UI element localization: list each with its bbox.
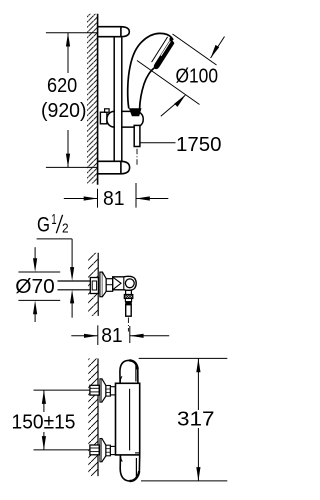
hose nut dark band [125,302,132,305]
svg-text:G: G [37,213,50,237]
svg-text:1: 1 [51,212,56,228]
neck below elbow [125,291,127,295]
cartridge line [129,389,131,451]
svg-text:Ø70: Ø70 [15,275,55,298]
top knurl ring [106,386,111,397]
svg-text:2: 2 [62,221,69,236]
wall hatching (middle view) [88,253,98,316]
svg-text:(920): (920) [41,100,87,122]
dimension Ø100 upper arrow [211,37,225,59]
wall hatching (bottom view) [88,359,98,477]
dimension Ø70 extent lines [18,271,60,273]
bottom hex nut [90,445,99,455]
dimension 620 (920) line [67,33,69,73]
svg-text:620: 620 [47,75,77,97]
escutcheon cone (middle) [102,272,106,297]
holder body on rail [107,111,143,127]
elbow V-notch [113,278,121,290]
holder lever knob [100,112,107,124]
hand shower handle outer curve [128,33,173,108]
supply pipe through wall [58,280,91,282]
bottom connection stub [110,446,115,454]
hose stub [126,305,132,317]
rail channel through holder [115,110,121,128]
bottom escutcheon base [100,439,102,462]
dimension 150±15 line + arrows [43,390,45,412]
top control knob [120,360,138,383]
dimension 81 (middle) extensions [97,325,99,345]
wall line [97,14,99,185]
svg-text:317: 317 [177,409,215,431]
hose centerline dash-dot [127,318,129,332]
handle end cone (dark) in holder [129,108,142,116]
hose adapter [125,299,131,302]
knurled hose nut [124,295,133,299]
top rail bracket [98,27,130,37]
top escutcheon cone [102,379,106,402]
handle inner curve [140,68,155,109]
dimension 317 bottom extension [141,480,227,482]
dimension 81 (top) right extension [135,183,137,208]
wall line (middle) [97,253,99,316]
wall line (bottom) [97,359,99,477]
head face plate (dark stripe) [154,40,173,69]
dimension 81 (top) arrows [64,198,98,200]
head inner bevel line [152,37,168,62]
knurled ring (middle) [106,279,113,292]
G1/2 leader vertical + arrows to pipe [71,239,73,268]
svg-text:150±15: 150±15 [12,412,76,434]
G1/2 leader underline [37,238,73,240]
top connection stub [110,387,115,395]
bottom rail bracket [98,161,130,174]
svg-text:Ø100: Ø100 [176,66,219,88]
thermostat body [116,383,140,455]
dimension Ø100 lower extension (leader) line [137,61,200,105]
dimension 150±15 bottom extension [34,449,90,451]
dimension Ø100 lower arrow [161,95,186,116]
hose dash-dot centerline [136,149,138,166]
bottom knurl ring [106,445,111,456]
svg-text:81: 81 [101,325,123,347]
body bottom step [135,452,140,454]
bottom escutcheon cone [102,439,106,462]
hose upper tube [134,125,140,146]
dimension 317 line + arrows [197,358,199,410]
escutcheon base plate (middle) [100,272,103,297]
svg-text:81: 81 [103,188,125,210]
dimension 317 top extension [139,357,228,359]
dimension Ø70 arrows [34,247,36,258]
wall hatching (top view) [87,14,98,184]
rail (vertical bar) [113,38,115,162]
wire: 620 top extension line [46,32,98,34]
bottom control knob [120,455,140,481]
dimension 81 (top) left extension [97,189,99,208]
elbow nut circle [125,279,134,288]
top escutcheon base [100,379,102,402]
wire: 620 bottom extension line [46,166,98,168]
thread block at wall [90,278,98,294]
head tip corner [169,37,173,42]
dimension 81 (middle) arrows [71,335,98,337]
svg-text:1750: 1750 [176,134,222,156]
dimension 150±15 top extension [34,389,90,391]
dimension Ø100 upper extension (tangent) line [173,34,217,65]
leader 1750 [140,142,175,144]
elbow housing [113,276,137,290]
top hex nut [90,385,99,395]
